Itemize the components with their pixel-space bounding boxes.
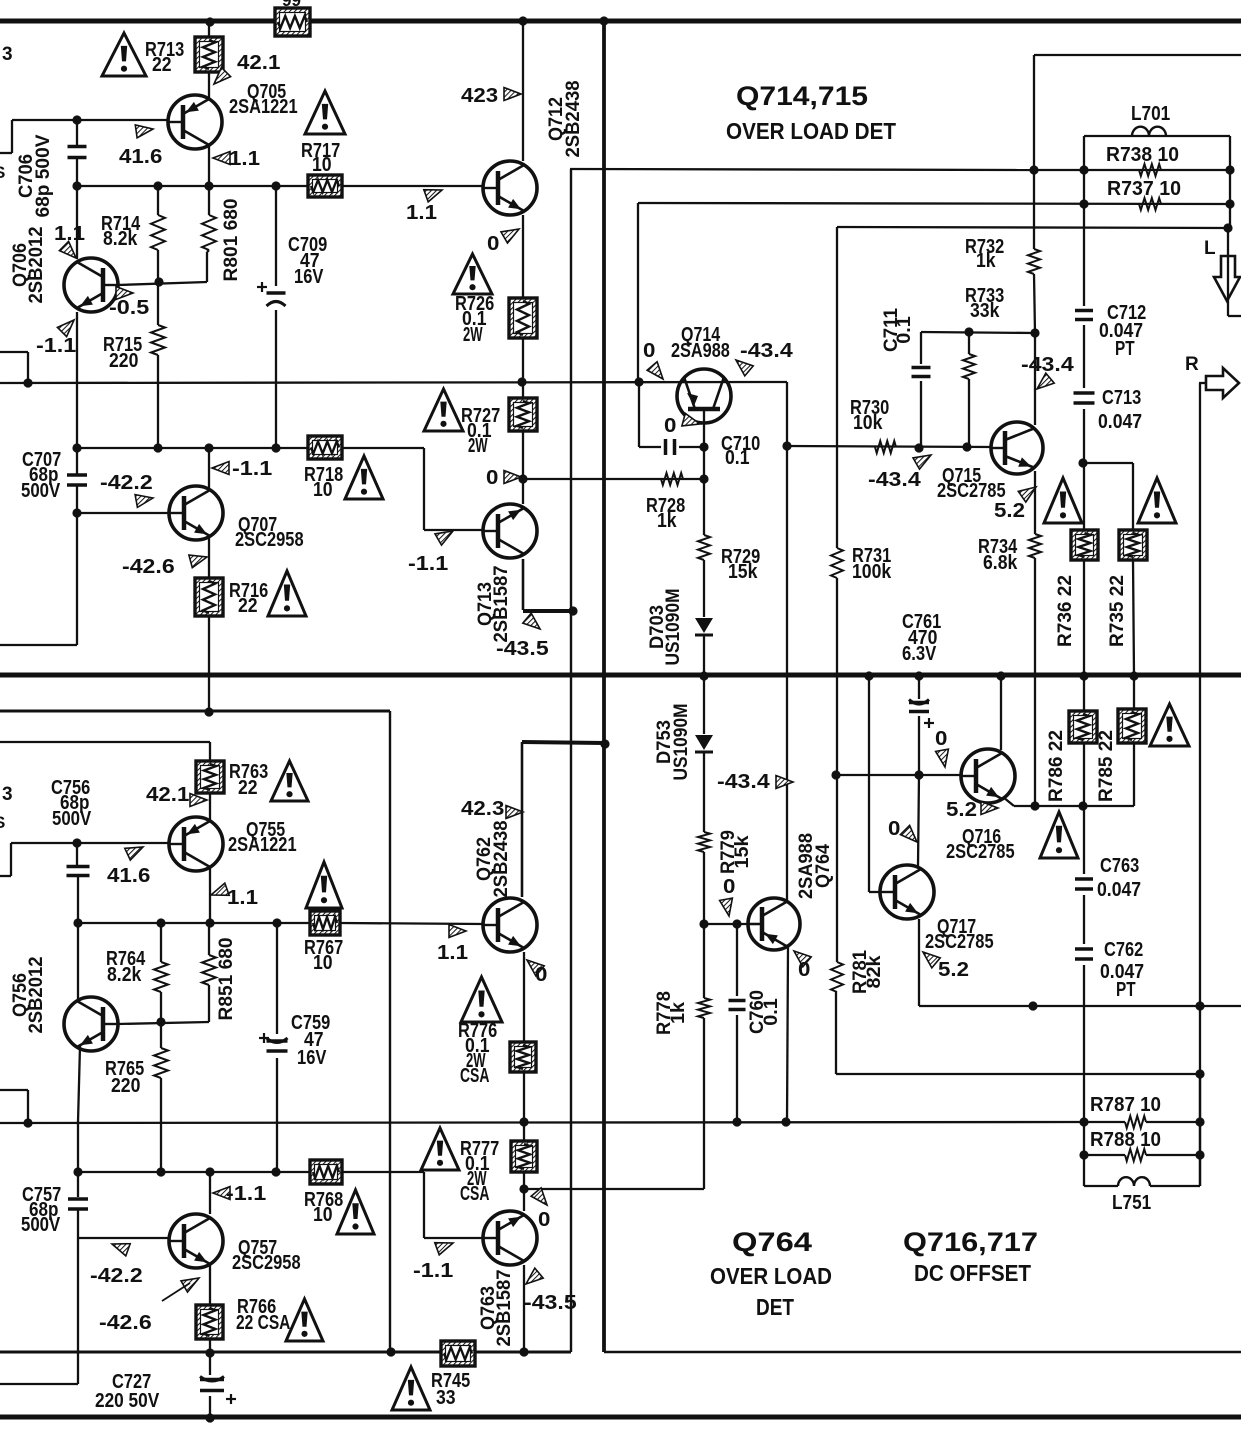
junction [204,707,213,716]
svg-text:R737 10: R737 10 [1107,178,1181,200]
svg-text:2SB2012: 2SB2012 [26,227,47,304]
label C727 [95,1371,160,1412]
label R734 6.8k [978,536,1018,574]
label R767 10 [304,937,343,974]
wire inner loop top y227 [837,227,1228,548]
resistor R734 [1029,534,1041,558]
svg-text:2SC2958: 2SC2958 [232,1252,301,1274]
label -1.1 Q713 [408,553,448,575]
svg-text:10: 10 [313,1204,333,1226]
label L out [1204,238,1216,259]
junction [914,443,923,452]
junction [154,277,163,286]
svg-text:R851 680: R851 680 [216,938,237,1021]
resistor R781 [831,962,843,992]
junction [1028,1001,1037,1010]
junction [1079,165,1088,174]
svg-text:6.3V: 6.3V [902,643,937,665]
junction [600,739,609,748]
marker arrow 42.1 top [214,67,231,84]
svg-text:OVER LOAD DET: OVER LOAD DET [726,118,896,144]
marker arrow 5.2 Q715 [1018,487,1036,502]
resistor R777 [511,1141,537,1172]
diode D753 [695,735,713,752]
label D703 [647,589,684,666]
transistor Q717 [880,865,934,919]
label 42.1 bottom [146,784,189,806]
label -1.1 Q763 [413,1260,453,1282]
svg-text:-1.1: -1.1 [226,1183,266,1205]
marker arrow 0 Q713 [504,471,521,484]
label 1.1 Q762 [437,942,468,964]
junction [72,838,81,847]
marker arrow 1.1 Q705 [213,152,230,165]
wire C709 column [275,186,277,448]
junction [732,1117,741,1126]
wire C760 column [736,924,738,1122]
capacitor C706 [68,147,87,158]
svg-text:0.1: 0.1 [894,316,915,344]
label R716 22 [229,580,268,617]
label R736 22 [1055,575,1076,647]
wire R765 column [160,1022,162,1172]
junction [519,1184,528,1193]
wire D753 column [703,676,705,832]
capacitor C709 [257,282,286,306]
label Q714 [671,324,730,362]
wire Q715 emitter column [1034,471,1036,806]
svg-text:C713: C713 [1102,387,1141,409]
warning triangle R718 [345,456,383,499]
marker arrow -43.4 R730 [913,455,931,469]
svg-text:10k: 10k [853,412,883,434]
label 0 Q714 top [643,340,655,362]
svg-text:C763: C763 [1100,855,1139,877]
svg-text:0: 0 [535,964,547,986]
resistor R768 [310,1160,342,1184]
transistor Q763 [483,1211,537,1265]
resistor R736 [1071,530,1098,560]
label R763 22 [229,761,268,799]
resistor R715 [151,325,165,355]
wire Q717 collector column [918,775,919,866]
junction [831,770,840,779]
svg-text:1.1: 1.1 [227,887,258,909]
label -42.2 top [100,472,153,494]
transistor Q762 [483,898,537,952]
svg-text:6.8k: 6.8k [983,552,1018,574]
svg-text:5.2: 5.2 [938,959,969,981]
label R787 10 [1090,1094,1161,1116]
marker arrow 1.1 Q762 [449,925,466,938]
marker arrow -43.5 bottom [526,1268,543,1284]
label Q707 [235,514,304,551]
wire L speaker column [1228,170,1230,316]
label Q715 [937,465,1006,502]
junction [1195,1001,1204,1010]
svg-text:22 CSA: 22 CSA [236,1312,291,1334]
warning triangle R717 [305,91,345,134]
svg-text:82k: 82k [864,955,885,988]
junction [732,919,741,928]
svg-text:10: 10 [313,479,333,501]
junction [699,671,708,680]
wire R788 link [1084,1074,1200,1186]
svg-text:220: 220 [109,350,138,372]
warning triangle R727 [424,389,463,431]
marker arrow -0.5 [116,287,133,300]
svg-text:L701: L701 [1131,103,1170,125]
junction [23,378,32,387]
wire L speaker stub [1228,315,1241,317]
svg-text:423: 423 [461,85,498,107]
svg-text:2SC2785: 2SC2785 [946,841,1015,863]
label R714 8.2k [101,213,141,250]
marker arrow -42.6 [189,555,207,568]
svg-text:-43.4: -43.4 [868,469,922,491]
label C756 [51,777,92,830]
svg-text:PT: PT [1115,338,1135,360]
label 0 Q764 [798,959,810,981]
marker arrow -1.1 R718 [212,462,229,475]
svg-text:1.1: 1.1 [229,148,260,170]
label R718 10 [304,464,343,501]
wire Q707 collector column [208,448,210,489]
svg-text:2SB2438: 2SB2438 [491,821,512,898]
wire R713 column [208,21,210,99]
svg-text:-42.2: -42.2 [90,1265,143,1287]
junction [205,918,214,927]
marker arrow 0 Q764 [794,951,811,967]
wire Q764 emitter column [787,947,788,1122]
label Q755 [228,819,297,856]
resistor R785 [1118,709,1146,743]
wire Q764 base [704,923,759,925]
resistor R851 [202,955,216,985]
resistor R735 [1119,530,1147,560]
label -42.2 bottom [90,1265,143,1287]
wire Q707 emitter column [208,538,210,712]
svg-text:2SB2012: 2SB2012 [26,957,47,1034]
wire C762 column [1083,965,1085,1122]
capacitor C761 [909,700,934,729]
svg-text:33: 33 [436,1387,456,1409]
svg-text:220 50V: 220 50V [95,1390,160,1412]
wire Q757 base [78,1237,169,1239]
resistor R716 [195,578,223,616]
svg-text:-43.4: -43.4 [717,771,771,793]
svg-text:US1090M: US1090M [663,589,684,666]
svg-text:Q716,717: Q716,717 [903,1227,1038,1257]
label C760 0.1 [747,990,782,1034]
resistor R767 [310,911,340,935]
svg-text:22: 22 [238,777,258,799]
junction [634,377,643,386]
marker arrow 0 Q716 [936,749,949,767]
label R745 33 [431,1370,470,1409]
label R733 33k [965,285,1004,322]
label R713 22 [145,39,184,76]
junction [914,770,923,779]
junction [518,16,527,25]
label 5.2 Q715 [994,500,1025,522]
transistor Q713 [483,504,537,558]
label R768 10 [304,1189,343,1226]
svg-text:10: 10 [312,154,332,176]
junction [782,441,791,450]
label C761 [902,611,941,665]
svg-text:Q764: Q764 [813,844,834,888]
label 0 R779 [723,876,735,898]
label Q716,717 title [903,1227,1038,1257]
resistor R726 [509,298,537,338]
svg-text:8.2k: 8.2k [107,964,142,986]
label R786 22 [1046,730,1067,802]
label 1.1 Q705 [229,148,260,170]
resistor R779 [698,832,710,852]
svg-text:0: 0 [798,959,810,981]
svg-text:Q764: Q764 [732,1227,812,1257]
wire C757 column [77,1172,79,1238]
junction [1078,458,1087,467]
label -43.4 D753 [717,771,771,793]
svg-text:16V: 16V [297,1047,327,1069]
marker arrow -43.5 top [523,613,540,629]
svg-text:500V: 500V [21,1214,61,1236]
svg-text:-43.4: -43.4 [1021,354,1075,376]
svg-text:99: 99 [282,0,301,10]
wire y1352 right [604,1351,1241,1353]
wire y1352 left [0,169,571,1352]
label R764 8.2k [106,948,146,986]
svg-text:S: S [0,813,5,832]
resistor R765 [154,1048,168,1078]
marker arrow 0 Q763 [531,1188,547,1205]
label R737 10 [1107,178,1181,200]
svg-text:-43.5: -43.5 [496,638,549,660]
wire R729 column [703,479,705,617]
label 5.2 Q717 [938,959,969,981]
svg-text:2SA988: 2SA988 [671,340,730,362]
wire Q762 collector out [522,742,605,897]
resistor R727 [509,398,537,431]
svg-text:22: 22 [152,54,172,76]
wire C711 net y332 [921,332,1035,333]
svg-text:OVER LOAD: OVER LOAD [710,1263,832,1289]
resistor R730 [875,441,896,453]
wire R736 column [1083,463,1085,676]
warning triangle R736 [1044,478,1082,523]
label -1.1 R768 [226,1183,266,1205]
junction [205,1413,214,1422]
marker arrow 42.1 bottom [190,794,207,807]
wire Q763 collector column [523,1265,525,1352]
label R788 10 [1090,1129,1161,1151]
marker arrow 41.6 bottom [125,847,143,860]
wire Q763 emitter column [523,1189,525,1211]
label R728 1k [646,495,685,532]
junction [568,606,577,615]
wire Q714 base column [703,409,705,479]
label Q762 [474,821,512,898]
marker arrow -42.2 [135,495,153,508]
warning triangle R713 [102,33,146,76]
wire C761 column [918,676,920,775]
warning triangle R726 [453,254,492,294]
label Q713 [475,566,512,643]
wire C712 column [1083,170,1085,388]
resistor top 99 [275,8,310,36]
svg-text:2W: 2W [463,324,483,346]
warning triangle R785b [1150,704,1189,746]
wire Q715 collector column [1034,333,1036,425]
label -43.4 R730 [868,469,922,491]
svg-text:100k: 100k [852,561,892,583]
label 5.2 Q716 [946,799,977,821]
resistor R717 [308,175,342,197]
wire -1.1 rail y383 [0,382,787,383]
wire Q716 emitter link y806 [1003,743,1134,806]
resistor R788 [1125,1149,1146,1161]
wire Q715 emitter link y463 [1083,463,1133,530]
wire y711 rail [0,711,390,1352]
wire R speaker column [1199,383,1201,1186]
label 1.1 Q755 [227,887,258,909]
wire C706 column [76,120,78,186]
transistor Q764 [748,898,800,950]
label 41.6 bottom [107,865,150,887]
svg-text:0: 0 [487,233,499,255]
marker arrow 0 Q717 [900,825,917,842]
wire Q716 collector column [1000,676,1002,750]
junction [153,443,162,452]
wire Q714 emitter column [786,382,788,446]
svg-text:R: R [1185,354,1199,375]
label L701 [1131,103,1170,125]
label C710 0.1 [721,433,760,469]
transistor Q706 [64,258,118,312]
label Q712 [546,81,584,158]
svg-text:16V: 16V [294,266,324,288]
wire top bus [0,19,1241,24]
label -43.4 Q714 [740,340,794,362]
label C713 [1098,387,1142,433]
svg-text:2SA1221: 2SA1221 [228,834,297,856]
wire main vertical bus x604 [602,21,606,1352]
marker arrow 1.1 Q706 [59,241,76,258]
wire R778 column [703,924,705,998]
wire Q757 emitter column [209,1265,211,1352]
junction [781,1117,790,1126]
junction [599,16,608,25]
marker arrow 1.1 Q712 [424,190,442,202]
label 0 Q762 [535,964,547,986]
capacitor C712 [1075,311,1093,320]
resistor R737 [1139,198,1161,210]
wire R717 rail y185 [77,185,483,187]
marker arrow -43.4 Q714 [736,360,753,376]
resistor R731 [831,548,843,578]
junction [1079,1150,1088,1159]
transistor Q712 [483,161,537,215]
svg-text:2SB1587: 2SB1587 [494,1270,515,1347]
resistor R776 [510,1042,536,1072]
label Q714,715 title [736,81,868,111]
label R851 680 [216,938,237,1021]
label C707 68p 500V [21,449,61,502]
svg-text:8.2k: 8.2k [103,228,138,250]
wire R732 column [1034,55,1035,333]
junction [519,1347,528,1356]
wire Q717 emitter y1006 [919,919,1241,1006]
wire R718 rail y448 [77,448,483,530]
label 1.1 Q706 [54,223,85,245]
svg-text:1k: 1k [976,250,996,272]
junction [1079,199,1088,208]
svg-text:US1090M: US1090M [671,704,692,781]
label -43.5 top [496,638,549,660]
wire R763 column [209,793,211,821]
wire C707 column [76,448,78,513]
wire Q706 collector column [76,312,78,448]
label 42.1 top [237,52,280,74]
svg-text:-1.1: -1.1 [36,335,76,357]
junction [205,1167,214,1176]
capacitor C763 [1075,879,1093,889]
svg-text:2W: 2W [468,435,488,457]
marker arrow 423 [504,88,521,101]
svg-text:0: 0 [888,818,900,840]
wire R768 rail y1172 [78,1172,483,1238]
label R730 10k [850,397,889,434]
label Q764 title [732,1227,812,1257]
marker arrow 0 Q762 [527,960,544,976]
warning triangle R766 [286,1299,323,1341]
wire R737 net y204 [638,203,1230,382]
label 0 Q717 [888,818,900,840]
svg-text:L751: L751 [1112,1192,1151,1214]
marker arrow 5.2 Q717 [923,952,940,968]
junction [1079,671,1088,680]
junction [864,671,873,680]
svg-text:1.1: 1.1 [437,942,468,964]
svg-text:0: 0 [723,876,735,898]
label S fragment top [0,163,5,182]
svg-text:-43.4: -43.4 [740,340,794,362]
resistor R778 [698,998,710,1018]
warning triangle R745 [392,1367,430,1410]
wire -1.1 rail y1122 [0,1122,1084,1123]
transistor Q715 [991,422,1043,474]
junction [73,918,82,927]
wire D703 tail [703,636,705,676]
transistor Q755 [169,817,223,871]
svg-text:0.047: 0.047 [1097,879,1141,901]
label R726 0.1 2W [455,293,494,346]
wire R727 column [522,382,524,479]
wire Q756 collector column [78,1046,80,1172]
wire R786 column [1083,676,1085,806]
wire bottom bus [0,1415,1241,1420]
transistor Q714 [677,369,731,423]
junction [1079,1117,1088,1126]
label 41.6 top [119,146,162,168]
svg-text:L: L [1204,238,1216,259]
wire Q755 collector column [209,867,211,923]
marker arrow 1.1 Q755 [211,883,229,895]
svg-text:R785 22: R785 22 [1096,730,1117,802]
marker arrow -1.1 Q706 [57,320,74,337]
